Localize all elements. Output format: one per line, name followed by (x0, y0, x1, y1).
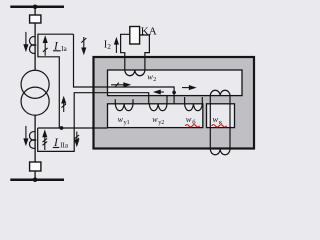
label I_IIa (53, 137, 69, 149)
breaker Q1 (30, 15, 41, 23)
svg-text:Iа: Iа (61, 45, 67, 53)
label band window (108, 104, 203, 128)
main feeder line (34, 7, 36, 180)
label I_Ia (53, 40, 68, 53)
arrow right (182, 86, 195, 90)
breaker Q2 (30, 162, 41, 171)
svg-text:w: w (186, 114, 192, 124)
label wk with spellcheck squiggle (212, 114, 227, 127)
arrow left (155, 90, 164, 94)
winding w2 (125, 70, 145, 76)
arrow up with tick in TA1 loop (43, 37, 48, 56)
KA leads (121, 34, 150, 70)
winding wy1 (115, 99, 133, 110)
node on bottom busbar (33, 177, 38, 182)
core window 1 (108, 70, 243, 96)
arrow right with tick on P (111, 83, 129, 88)
svg-text:w: w (147, 71, 153, 81)
CT TA1 primary loops (30, 37, 36, 54)
arrow I1 down (24, 32, 28, 50)
label w2 (147, 71, 156, 83)
arrow down with tick right of TA1 loop (81, 37, 86, 54)
node on wire R (60, 126, 64, 130)
label I2 (104, 39, 112, 51)
top busbar (10, 6, 64, 9)
arrow up with tick mid wire (61, 98, 66, 113)
label wy2 (152, 115, 164, 126)
svg-text:у1: у1 (124, 120, 130, 126)
wk label window (207, 104, 235, 128)
svg-text:IIа: IIа (60, 141, 69, 149)
CT TA1 secondary bracket and loop (38, 34, 74, 128)
winding wk top arcs (210, 90, 230, 95)
bottom busbar (10, 178, 64, 181)
svg-text:2: 2 (153, 77, 156, 83)
svg-text:у2: у2 (158, 120, 164, 126)
arrow I2 up (115, 39, 119, 53)
relay KA coil (130, 27, 140, 45)
node on wire P (172, 91, 176, 95)
winding wk bottom arcs (210, 149, 230, 154)
label wy1 (118, 115, 130, 126)
winding wb (185, 97, 203, 111)
arrow down with tick below R (75, 132, 80, 146)
arrow up with tick in TA2 loop (43, 131, 48, 150)
svg-text:2: 2 (107, 43, 111, 51)
wire P to windings (74, 34, 175, 104)
svg-text:w: w (213, 114, 219, 124)
winding wk side wires (210, 96, 230, 150)
node on top busbar (33, 5, 38, 10)
winding wy2 (149, 96, 167, 111)
CT TA2 primary loops (30, 132, 36, 149)
NTT saturating transformer gray body (94, 57, 255, 149)
arrow I2 down left of TA2 (24, 126, 28, 144)
wire R common return (38, 127, 108, 129)
label wb with spellcheck squiggle (185, 114, 199, 127)
transformer T (21, 70, 49, 98)
CT TA2 secondary bracket + wire Q (38, 93, 149, 152)
